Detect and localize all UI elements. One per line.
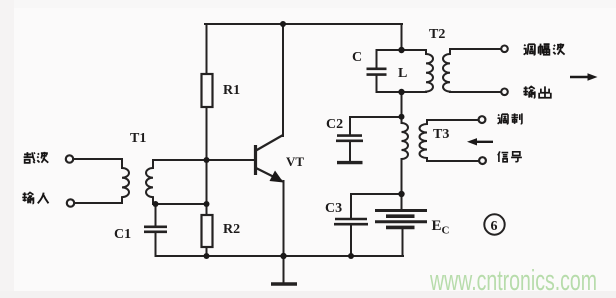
junction node tank top (398, 47, 404, 53)
capacitor C1 plates (144, 227, 167, 232)
transformer T3 primary winding (402, 123, 409, 159)
svg-text:R2: R2 (223, 222, 240, 237)
transformer T1 primary winding (73, 159, 129, 203)
ground bar below C2 (337, 161, 363, 164)
junction node T1 secondary bottom (153, 201, 159, 207)
wire collector vertical (282, 24, 284, 136)
ground symbol at emitter (271, 256, 297, 284)
label carrier wave (zai bo) (24, 152, 49, 163)
wire main vertical tank to T3 (401, 92, 403, 123)
wire emitter vertical (283, 181, 285, 256)
label signal (xin hao) (498, 151, 522, 162)
capacitor C3 plates (334, 219, 368, 224)
resistor R1 (202, 74, 213, 107)
junction node R2 bottom (204, 253, 210, 259)
capacitor C plates (tank) (367, 69, 387, 75)
wire T2 secondary top out (450, 48, 501, 50)
wire tank top link (377, 49, 427, 51)
capacitor C2 plates (336, 136, 363, 141)
wire C2 lower lead (349, 141, 351, 160)
arrow output direction right (570, 73, 598, 80)
junction node at rail/collector (280, 21, 286, 27)
wire C1 top lead (155, 204, 157, 226)
terminal carrier input bottom (67, 199, 74, 206)
wire bottom ground rail (156, 255, 404, 257)
svg-text:C2: C2 (326, 117, 343, 132)
svg-text:C: C (352, 50, 362, 65)
terminal carrier input top (66, 155, 73, 162)
wire C1 bottom lead (155, 232, 157, 256)
transistor VT base bar (254, 145, 257, 175)
svg-text:VT: VT (286, 154, 304, 169)
transformer T2 primary winding (tank inductor L) (426, 50, 433, 92)
wire R1 bottom lead to base node (206, 107, 208, 160)
wire main right vertical from rail to tank top (401, 24, 403, 50)
wire base wire (153, 159, 255, 161)
label input (shu ru) (22, 192, 48, 203)
label modulation (tiao zhi) (498, 113, 522, 124)
wire C2 tap (350, 116, 402, 118)
wire C3 top lead (350, 194, 352, 218)
wire T3 secondary top out (427, 119, 479, 121)
resistor R2 (202, 215, 213, 247)
junction node tank bottom (398, 89, 404, 95)
svg-text:www.cntronics.com: www.cntronics.com (429, 265, 597, 297)
wire capacitor C bottom lead (376, 75, 378, 92)
wire battery bottom lead (402, 228, 404, 256)
wire R2 top lead (206, 160, 208, 215)
wire R2 bottom lead (206, 247, 208, 256)
terminal AM output top (501, 46, 508, 53)
wire T3 secondary bottom out (427, 160, 479, 162)
wire R1 top lead (206, 24, 208, 74)
label output (shu chu) (523, 86, 551, 97)
junction node C2 tap (399, 114, 405, 120)
wire C3 tap (351, 193, 402, 195)
junction node R2 top tap (204, 201, 210, 207)
battery EC (375, 211, 427, 228)
terminal AM output bottom (501, 89, 508, 96)
arrow modulation direction left (467, 138, 493, 145)
wire capacitor C top lead (376, 50, 378, 68)
transistor VT emitter arrowhead (270, 171, 284, 183)
transformer T3 secondary winding (420, 120, 427, 161)
svg-text:T2: T2 (429, 27, 445, 42)
svg-text:C1: C1 (114, 227, 131, 242)
svg-text:T1: T1 (130, 131, 146, 146)
wire T2 secondary bottom out (450, 91, 501, 93)
svg-text:L: L (398, 66, 407, 81)
transistor VT collector stroke (256, 135, 283, 151)
wire C3 bottom lead (350, 225, 352, 256)
svg-text:R1: R1 (223, 83, 240, 98)
transformer T2 secondary winding (443, 49, 450, 92)
wire C2 top lead (349, 117, 351, 135)
svg-text:6: 6 (491, 219, 498, 234)
junction node C3 bottom rail (348, 253, 354, 259)
svg-text:C3: C3 (325, 201, 342, 216)
junction node emitter/ground rail (280, 253, 286, 259)
terminal modulation top (479, 116, 486, 123)
transistor VT emitter stroke (256, 168, 282, 181)
junction node base/R divider (204, 157, 210, 163)
svg-text:T3: T3 (433, 127, 449, 142)
wire T1 secondary bottom to R2 node (153, 203, 207, 205)
wire main vertical T3 to battery (401, 159, 403, 210)
wire top supply rail (205, 23, 402, 25)
terminal modulation bottom (479, 157, 486, 164)
label AM wave (tiao fu bo) (524, 43, 565, 55)
circled figure number 6 (484, 214, 504, 234)
wire tank bottom link (377, 91, 427, 93)
junction node C3 tap (398, 191, 404, 197)
transformer T1 secondary winding (146, 160, 153, 204)
